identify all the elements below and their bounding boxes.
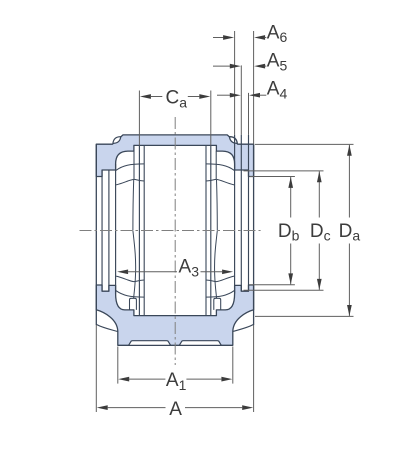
svg-text:A: A [169, 399, 182, 420]
